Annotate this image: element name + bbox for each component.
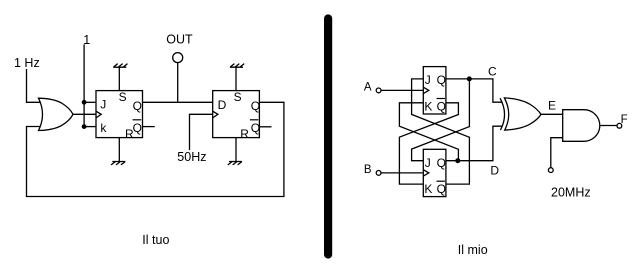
svg-text:OUT: OUT: [166, 33, 193, 47]
junction node C: [467, 76, 472, 81]
svg-text:S: S: [234, 90, 242, 104]
svg-text:1 Hz: 1 Hz: [14, 56, 40, 70]
svg-text:Q: Q: [437, 182, 446, 196]
ground (top) above U3: [230, 64, 244, 68]
AND gate U7: [563, 110, 600, 142]
svg-text:R: R: [125, 127, 134, 141]
wire k stub: [84, 126, 96, 128]
terminal 20MHz circle: [548, 168, 553, 173]
wire constant 1 to J and k: [83, 44, 85, 126]
wire R pull U3: [235, 138, 237, 162]
svg-text:Il tuo: Il tuo: [142, 233, 169, 247]
divider bar: [324, 19, 332, 255]
svg-text:D: D: [490, 164, 499, 178]
svg-text:J: J: [100, 98, 106, 112]
terminal F circle: [617, 123, 622, 128]
wire S pull U2: [118, 67, 120, 90]
wire U4 K from U5 Q: [399, 103, 458, 161]
flip-flop U3 (D) body: [213, 91, 260, 138]
svg-text:Q: Q: [437, 156, 446, 170]
wire U2 Qbar stub: [143, 126, 155, 128]
wire U2 Q to U3 D: [143, 101, 213, 103]
svg-text:J: J: [425, 73, 431, 87]
wire 1Hz to OR input A: [27, 69, 41, 102]
wire 50Hz to clock U3: [190, 114, 213, 150]
clock wedge U2: [96, 111, 101, 118]
svg-text:K: K: [424, 99, 432, 113]
junction node k: [82, 124, 87, 129]
wire U5 J from U4 Q: [412, 79, 470, 161]
svg-text:B: B: [364, 164, 372, 176]
wire U4 Q to node C to XOR input: [446, 79, 503, 102]
ground (top) above U2: [113, 64, 127, 68]
wire feedback: D-FF Q to OR input B: [27, 102, 284, 196]
svg-text:F: F: [621, 114, 628, 126]
wire U3 Qbar stub: [259, 126, 271, 128]
terminal OUT circle: [173, 53, 183, 63]
ground (bottom) below U3: [228, 162, 242, 165]
clock wedge U4: [423, 87, 429, 93]
terminal A circle: [376, 88, 381, 93]
svg-text:20MHz: 20MHz: [551, 185, 591, 199]
wire A to clock U4: [381, 89, 423, 91]
flip-flop U2 (JK) body: [96, 91, 143, 138]
svg-text:A: A: [364, 82, 372, 94]
flip-flop U4 (top JK) body: [423, 67, 446, 114]
svg-text:R: R: [240, 127, 249, 141]
overbar Qbar U4: [437, 98, 445, 100]
svg-text:Q: Q: [133, 121, 142, 135]
wire S pull U3: [235, 67, 237, 90]
terminal B circle: [376, 171, 381, 176]
wire U5 K from U4 Qbar: [399, 103, 458, 184]
wire 20MHz to AND input: [551, 138, 563, 168]
wire E: XOR out to AND: [541, 113, 563, 115]
ground (bottom) below U2: [111, 162, 125, 165]
wire U4 J from U5 Qbar: [412, 79, 470, 184]
svg-text:D: D: [218, 98, 227, 112]
overbar Qbar U2: [133, 119, 142, 121]
svg-text:Q: Q: [437, 73, 446, 87]
flip-flop U5 (bottom JK) body: [423, 149, 446, 196]
overbar Qbar U5: [437, 180, 445, 182]
wire OR output to clock of U2: [73, 113, 96, 115]
svg-text:Q: Q: [251, 121, 260, 135]
wire U5 Q to node D to XOR input: [446, 126, 503, 161]
svg-text:J: J: [425, 156, 431, 170]
junction node J: [82, 100, 87, 105]
overbar Qbar U3: [250, 119, 258, 121]
svg-text:C: C: [488, 65, 497, 79]
clock wedge U5: [423, 170, 429, 176]
OR gate U1: [39, 98, 74, 130]
junction node D: [455, 158, 460, 163]
wire OUT tap: [177, 63, 179, 103]
wire B to clock U5: [381, 172, 423, 174]
svg-text:E: E: [548, 99, 556, 113]
wire R pull U2: [118, 138, 120, 162]
XOR gate U6: [500, 98, 504, 130]
svg-text:K: K: [424, 182, 432, 196]
svg-text:S: S: [119, 90, 127, 104]
wire F output: [600, 125, 617, 127]
svg-text:Q: Q: [251, 99, 260, 113]
svg-text:Q: Q: [437, 99, 446, 113]
svg-text:Q: Q: [133, 99, 142, 113]
svg-text:50Hz: 50Hz: [177, 150, 206, 164]
wire J stub: [84, 101, 96, 103]
svg-text:Il mio: Il mio: [458, 243, 488, 257]
clock wedge U3: [213, 111, 218, 118]
svg-text:k: k: [100, 121, 107, 135]
